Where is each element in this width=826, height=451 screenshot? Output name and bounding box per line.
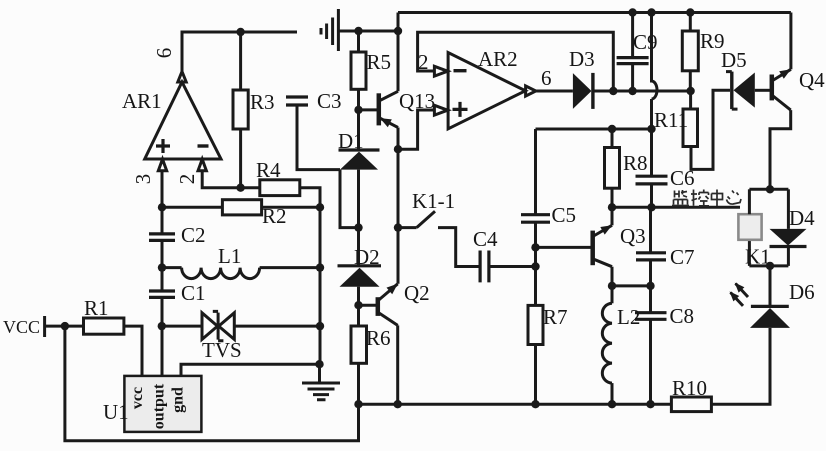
wire D2 anode down: [357, 287, 360, 326]
capacitor C2: [149, 223, 206, 247]
wire AR2 minus input / feedback: [418, 32, 614, 91]
wire hop vertical with crossover: [652, 13, 658, 177]
node R6 bottom rail: [354, 400, 362, 408]
op-amp AR2: [434, 47, 535, 129]
wire R2 row left: [162, 206, 222, 209]
zener diode D5: [721, 48, 755, 109]
wire C1 down to U1 output pin: [161, 297, 164, 376]
resistor R11: [654, 91, 698, 147]
node VCC line / output: [158, 322, 166, 330]
node L2 rail: [608, 400, 616, 408]
node Q2 collector rail: [394, 400, 402, 408]
node R8 top: [608, 125, 616, 133]
inductor L1: [182, 244, 260, 279]
wire rail down to Q4: [789, 13, 792, 70]
svg-text:AR2: AR2: [478, 47, 518, 71]
node y129 right end: [647, 125, 655, 133]
terminal VCC: [3, 316, 45, 337]
wire D1 anode stub loop: [340, 170, 359, 228]
svg-text:output: output: [151, 383, 168, 429]
node Q13 base: [354, 106, 362, 114]
label monitoring center: [672, 190, 741, 207]
node C8 rail: [646, 400, 654, 408]
node L1 right: [316, 263, 324, 271]
wire monitoring center line: [612, 206, 740, 209]
capacitor C3: [286, 89, 342, 113]
capacitor C1: [149, 281, 206, 305]
wire AR2 output: [536, 90, 573, 93]
svg-text:D3: D3: [569, 47, 595, 71]
svg-text:6: 6: [152, 48, 176, 59]
svg-text:R9: R9: [700, 29, 725, 53]
svg-text:C4: C4: [473, 227, 498, 251]
resistor R8: [605, 129, 648, 207]
node R3/R4/pin2: [236, 184, 244, 192]
wire VCC to R1: [45, 325, 84, 328]
wire C5 to C6 row: [536, 128, 652, 131]
wire K1/D4 bottom bus: [749, 264, 788, 267]
wire Q3 emitter up: [611, 207, 614, 225]
resistor R7: [528, 305, 568, 404]
inductor L2: [602, 286, 640, 404]
svg-text:VCC: VCC: [3, 317, 40, 337]
svg-text:C1: C1: [181, 281, 206, 305]
diode D3: [569, 47, 595, 109]
node top wire / R3 top: [236, 28, 244, 36]
node feedback tap: [609, 87, 617, 95]
node C6 bottom: [647, 203, 655, 211]
svg-text:TVS: TVS: [202, 338, 242, 362]
svg-text:AR1: AR1: [122, 89, 162, 113]
svg-text:C2: C2: [181, 223, 206, 247]
wire left bottom rail: [65, 326, 359, 441]
node hop rail top: [647, 8, 655, 16]
svg-text:R5: R5: [367, 50, 392, 74]
node C9 top: [628, 8, 636, 16]
wire Q13 emitter down: [397, 128, 400, 284]
node rail corner: [394, 27, 402, 35]
svg-text:R11: R11: [654, 108, 688, 132]
hanzi zhong: [712, 190, 723, 207]
capacitor C5: [521, 129, 576, 305]
TVS: [202, 311, 242, 362]
svg-text:U1: U1: [103, 400, 129, 424]
transistor Q13: [359, 89, 436, 128]
hanzi jian: [675, 190, 688, 198]
resistor R5: [351, 52, 366, 89]
wire to AR2 plus input: [398, 110, 434, 149]
wire R10 to D6: [711, 328, 770, 404]
capacitor C9: [617, 13, 658, 92]
svg-text:gnd: gnd: [170, 387, 187, 413]
node C8 top: [646, 282, 654, 290]
wire collector row: [612, 284, 651, 287]
svg-text:Q4: Q4: [799, 68, 825, 92]
capacitor C8: [635, 286, 694, 404]
wire right rail x320: [319, 207, 322, 364]
wire bottom rail: [359, 403, 672, 406]
node Q2 base tap: [354, 301, 362, 309]
svg-text:3: 3: [131, 174, 155, 185]
hanzi xin: [727, 191, 742, 205]
diode D2: [338, 245, 382, 287]
wire R3 top: [239, 32, 242, 90]
IC U1: [103, 376, 201, 432]
node R9 rail top: [686, 8, 694, 16]
wire R3 bottom: [239, 129, 242, 188]
op-amp AR1: [122, 72, 221, 171]
wire AR1 output to top: [182, 32, 297, 72]
wire C2 to C1: [161, 240, 164, 291]
node pin3 / R2 left: [158, 203, 166, 211]
svg-text:R8: R8: [623, 151, 648, 175]
wire R5 bottom to D1: [357, 89, 360, 150]
wire top rail: [398, 11, 791, 14]
transistor Q4: [755, 68, 825, 110]
wire U1 gnd pin: [181, 364, 320, 376]
hanzi kong: [691, 190, 697, 206]
LED D6: [730, 280, 815, 328]
node C9 bottom: [628, 87, 636, 95]
node R2 right: [316, 203, 324, 211]
node Q3 base tap: [531, 243, 539, 251]
svg-text:C7: C7: [670, 245, 695, 269]
svg-text:R4: R4: [256, 158, 281, 182]
svg-text:Q3: Q3: [620, 224, 646, 248]
svg-text:C5: C5: [552, 203, 577, 227]
wire L1 right: [260, 266, 320, 269]
capacitor C4: [473, 227, 536, 282]
wire AR1 pin3 down: [161, 171, 164, 234]
node gnd junction: [315, 360, 323, 368]
resistor R4: [260, 180, 300, 196]
node L1 left: [158, 263, 166, 271]
svg-text:D5: D5: [721, 48, 747, 72]
capacitor C7: [636, 207, 695, 286]
node R8 bottom: [608, 203, 616, 211]
node R7 rail: [531, 400, 539, 408]
svg-text:R7: R7: [543, 305, 568, 329]
wire Q2 collector down: [396, 325, 399, 404]
svg-text:6: 6: [541, 66, 552, 90]
wire D5 cathode to R11 bottom: [691, 90, 730, 169]
resistor R3: [233, 90, 248, 129]
node C4 right: [531, 262, 539, 270]
node top bus: [766, 185, 774, 193]
wire R4 right: [300, 188, 320, 208]
node Q3 collector: [608, 282, 616, 290]
node K1-1: [394, 223, 402, 231]
wire D1 to D2: [357, 170, 360, 266]
node D1/D2: [354, 223, 362, 231]
switch K1-1: [398, 189, 480, 267]
capacitor C6: [636, 166, 695, 207]
resistor R2: [222, 200, 261, 215]
wire L1 left stub: [162, 266, 182, 269]
svg-text:D2: D2: [354, 245, 380, 269]
resistor R10: [671, 376, 711, 412]
wire TVS right: [234, 325, 320, 328]
transistor Q2: [359, 281, 430, 325]
svg-text:D1: D1: [338, 129, 364, 153]
svg-text:R10: R10: [672, 376, 707, 400]
svg-text:C3: C3: [317, 89, 342, 113]
node bottom bus: [766, 262, 774, 270]
wire R5 top: [357, 31, 360, 52]
wire rail down to Q13 collector: [397, 13, 400, 92]
wire D3 to R9 node: [593, 90, 691, 93]
svg-text:L1: L1: [218, 244, 241, 268]
svg-text:C9: C9: [633, 30, 658, 54]
svg-text:R6: R6: [366, 326, 391, 350]
wire K1/D4 top bus: [749, 188, 788, 191]
wire D6 top: [769, 266, 772, 307]
svg-text:K1: K1: [745, 245, 771, 269]
svg-text:2: 2: [175, 174, 199, 185]
svg-text:R1: R1: [84, 296, 109, 320]
ground (bottom): [302, 364, 340, 400]
resistor R6: [351, 326, 391, 404]
wire R2 right: [262, 206, 320, 209]
node TVS right: [316, 322, 324, 330]
wire Q3 collector down: [611, 267, 614, 286]
resistor R9: [682, 13, 724, 92]
wire R1 to U1 vcc pin: [124, 326, 142, 376]
wire AR1 pin2 to R4: [202, 171, 260, 188]
wire Q4 emitter jog down: [770, 110, 791, 189]
svg-text:Q2: Q2: [404, 281, 430, 305]
transistor Q3: [536, 224, 646, 267]
wire node to TVS: [162, 325, 202, 328]
wire top ground to rail: [338, 30, 398, 33]
svg-text:C8: C8: [670, 304, 695, 328]
node R9 bottom / R11 top: [686, 87, 694, 95]
ground (top, sideways): [321, 9, 338, 51]
svg-text:R3: R3: [250, 90, 275, 114]
wire C3 bottom to D1 anode line: [297, 105, 340, 170]
node R5 top: [354, 27, 362, 35]
svg-text:D4: D4: [789, 206, 815, 230]
svg-text:L2: L2: [617, 305, 640, 329]
relay coil K1: [738, 189, 770, 268]
resistor R1: [84, 318, 124, 334]
svg-text:D6: D6: [789, 280, 815, 304]
diode D1: [338, 129, 380, 170]
diode D4: [770, 189, 816, 266]
node VCC branch: [61, 322, 69, 330]
node Q13 emitter / AR2 plus: [394, 145, 402, 153]
svg-text:K1-1: K1-1: [412, 189, 455, 213]
svg-text:vcc: vcc: [129, 387, 146, 409]
